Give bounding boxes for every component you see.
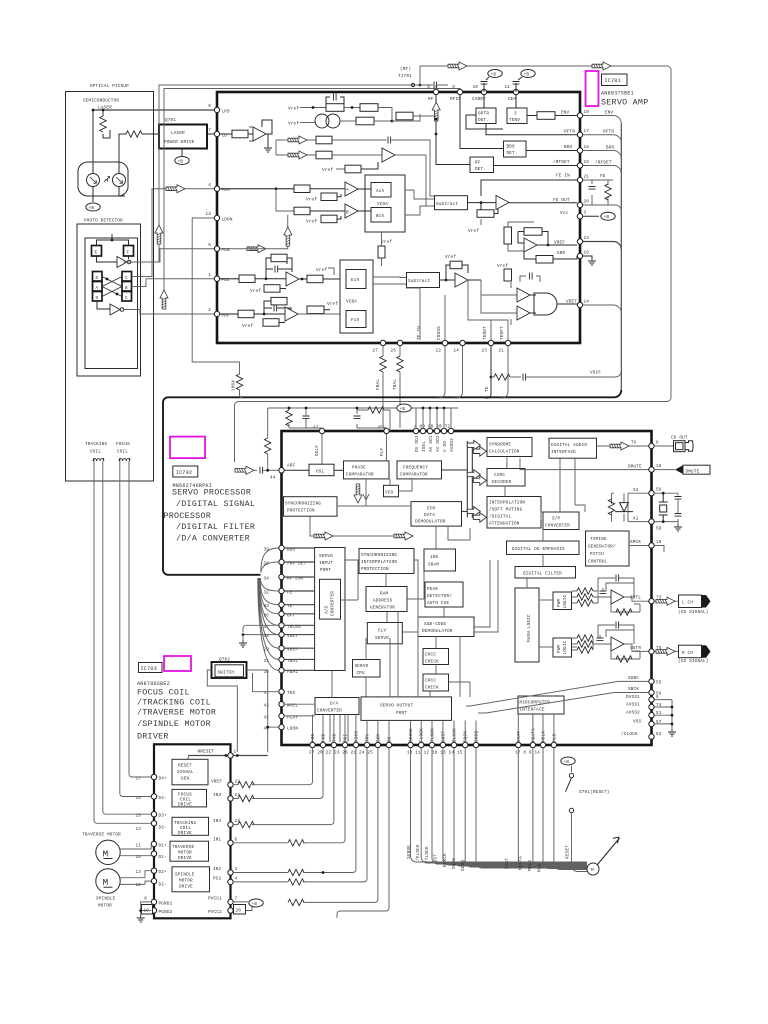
PWM logic block L xyxy=(539,592,572,610)
svg-text:D/A: D/A xyxy=(330,702,339,707)
svg-text:17 8 9 14: 17 8 9 14 xyxy=(515,751,540,756)
wire LD via resistor to laser xyxy=(119,131,158,174)
switch Q702 xyxy=(212,658,247,679)
svg-text:18: 18 xyxy=(584,145,590,150)
bus drop SUBQ xyxy=(461,748,587,871)
+B at CEA xyxy=(513,70,536,93)
svg-text:IN2: IN2 xyxy=(213,867,222,872)
pin 40 LDON xyxy=(263,724,298,731)
processor IC U702 package outline xyxy=(282,431,652,745)
svg-text:26: 26 xyxy=(390,349,396,354)
svg-text:TEOUT: TEOUT xyxy=(483,326,488,340)
Vref stubs near comparator xyxy=(497,264,540,282)
interpolation soft muting block xyxy=(462,486,542,528)
svg-text:D2+: D2+ xyxy=(159,870,168,875)
svg-text:BDO: BDO xyxy=(507,145,516,150)
FE amp xyxy=(468,180,580,234)
svg-text:PHASE: PHASE xyxy=(352,466,366,471)
svg-text:FCD: FCD xyxy=(322,733,327,742)
hatched arrow into ARF xyxy=(235,466,279,474)
EFM data demodulator block xyxy=(411,502,462,526)
coil wire to D4- xyxy=(120,461,152,797)
svg-text:M: M xyxy=(103,849,109,860)
pin 73 OUTL xyxy=(630,596,662,604)
Vref ladder row 1 xyxy=(288,94,392,122)
bias resistor to ARF xyxy=(265,408,271,472)
svg-text:D2-: D2- xyxy=(159,883,167,888)
svg-text:17: 17 xyxy=(584,129,590,134)
svg-text:DRIVER: DRIVER xyxy=(137,732,169,742)
svg-text:TIMING: TIMING xyxy=(590,537,607,542)
pin 39 BDO xyxy=(263,545,295,552)
Q701 +B supply xyxy=(175,149,189,165)
connector M xyxy=(587,863,599,875)
svg-text:11: 11 xyxy=(504,85,510,90)
+B at Vcc xyxy=(583,212,616,220)
svg-text:SERVO PROCESSOR: SERVO PROCESSOR xyxy=(172,488,251,498)
svg-text:CONVERTER: CONVERTER xyxy=(331,591,336,616)
svg-text:DMUTE: DMUTE xyxy=(628,464,642,469)
svg-text:TE IN: TE IN xyxy=(417,326,422,340)
pin 74 AVSS1 xyxy=(626,703,662,710)
pin 8 TX xyxy=(649,441,659,449)
svg-text:24: 24 xyxy=(584,236,590,241)
svg-text:IC702: IC702 xyxy=(176,470,193,476)
svg-text:16K: 16K xyxy=(430,555,439,560)
pin 37 TRCRS xyxy=(263,623,301,630)
pin 6 LPD xyxy=(208,104,230,115)
pin 17 OPTR xyxy=(564,129,589,137)
DAC R output filter xyxy=(611,651,640,662)
shielded riser to RFIN pin xyxy=(160,89,460,310)
svg-text:SUB-CODE: SUB-CODE xyxy=(424,622,446,627)
A/D converter block xyxy=(320,560,359,619)
pin 57 VSS xyxy=(633,719,662,726)
svg-text:ENV: ENV xyxy=(605,111,614,116)
svg-text:D4-: D4- xyxy=(159,796,167,801)
svg-text:PORT: PORT xyxy=(396,711,407,716)
svg-text:C: C xyxy=(125,296,128,301)
svg-text:Ech: Ech xyxy=(351,278,360,283)
svg-text:AN8780SBE2: AN8780SBE2 xyxy=(137,681,170,687)
svg-text:TBAL: TBAL xyxy=(393,379,398,390)
svg-text:PGND1: PGND1 xyxy=(159,901,173,906)
svg-text:D3+: D3+ xyxy=(159,814,168,819)
svg-text:13: 13 xyxy=(135,870,141,875)
svg-text:SYNCHRONIZING: SYNCHRONIZING xyxy=(361,553,397,558)
svg-text:COMPARATOR: COMPARATOR xyxy=(400,473,428,478)
Vref feed between VCO blocks xyxy=(378,232,392,266)
svg-text:58: 58 xyxy=(656,527,662,532)
svg-text:/TLOCK: /TLOCK xyxy=(425,846,430,863)
svg-text:30: 30 xyxy=(263,670,269,675)
CD OUT connector xyxy=(654,436,693,452)
svg-text:OUTR: OUTR xyxy=(630,646,641,651)
svg-text:Vref: Vref xyxy=(250,289,261,294)
svg-text:PVCC1: PVCC1 xyxy=(208,897,222,902)
IC701 part number xyxy=(601,91,634,97)
X2 X1 wires xyxy=(628,488,649,546)
svg-text:X1: X1 xyxy=(633,516,639,521)
optical pickup enclosure xyxy=(66,84,154,481)
svg-text:2: 2 xyxy=(208,308,211,313)
svg-text:VCO: VCO xyxy=(385,491,394,496)
svg-text:PC2: PC2 xyxy=(213,877,222,882)
svg-text:SERVO OUTPUT: SERVO OUTPUT xyxy=(380,704,414,709)
pin 9 RFIN xyxy=(450,85,463,102)
svg-text:OPTR: OPTR xyxy=(478,112,489,117)
svg-text:IN3: IN3 xyxy=(213,793,222,798)
laser diode ground xyxy=(113,187,125,197)
bottom pins IC701 xyxy=(372,340,385,353)
Vcc label xyxy=(560,211,569,216)
OUTL line arrow xyxy=(654,595,710,615)
IC702 bottom pins group B xyxy=(407,742,479,755)
DMUTE wire xyxy=(520,458,649,469)
svg-text:DV DD1: DV DD1 xyxy=(415,435,420,452)
sub-code demodulator block xyxy=(418,560,498,637)
svg-text:SENSE: SENSE xyxy=(407,845,412,859)
svg-text:4: 4 xyxy=(208,183,211,188)
svg-text:8: 8 xyxy=(656,441,659,446)
svg-text:PWM: PWM xyxy=(557,644,562,653)
svg-text:Vref: Vref xyxy=(242,324,253,329)
IC703 designator box xyxy=(139,663,163,673)
bus fan-out arcs to processor left pins xyxy=(258,548,279,670)
SMCK stub xyxy=(654,546,664,553)
svg-text:DRIVE: DRIVE xyxy=(178,831,192,836)
coil wire to D3- xyxy=(94,461,152,823)
svg-text:BDO: BDO xyxy=(564,145,573,150)
svg-text:FOD: FOD xyxy=(311,733,316,742)
synchronizing interpolation protection block xyxy=(359,549,414,574)
svg-text:SMCK: SMCK xyxy=(630,540,641,545)
svg-text:62: 62 xyxy=(656,732,662,737)
svg-text:14: 14 xyxy=(584,300,590,305)
svg-text:AVSS2: AVSS2 xyxy=(626,711,640,716)
VREF follower cluster xyxy=(504,222,577,263)
svg-text:16: 16 xyxy=(584,251,590,256)
pin 41 TES xyxy=(263,689,295,696)
RAM address generator block xyxy=(366,571,424,612)
FBAL resistor drop xyxy=(376,346,387,431)
pin 19 ENV xyxy=(561,110,589,118)
svg-text:7: 7 xyxy=(235,897,238,902)
svg-text:LOGIC: LOGIC xyxy=(563,594,568,608)
photodiode F xyxy=(124,246,134,257)
photodiode E xyxy=(92,246,102,257)
svg-text:FOCUS COIL: FOCUS COIL xyxy=(137,688,190,698)
test jack TJ701 xyxy=(398,67,421,87)
svg-text:43: 43 xyxy=(263,704,269,709)
svg-text:PROTECTION: PROTECTION xyxy=(287,509,315,514)
svg-text:E: E xyxy=(95,251,98,256)
IC702 bottom pins group C xyxy=(515,742,557,755)
S/P converter block xyxy=(541,458,585,529)
svg-text:STAT: STAT xyxy=(517,731,522,742)
pin 35 VDET xyxy=(263,632,298,639)
pin 31 TBAL xyxy=(263,657,298,664)
OSLF label xyxy=(315,445,320,456)
svg-text:DRIVE: DRIVE xyxy=(179,884,193,889)
pin 34 RF ENV xyxy=(263,574,303,581)
signal bus trunk xyxy=(163,390,621,575)
svg-text:MOTOR: MOTOR xyxy=(178,851,192,856)
svg-text:(RF): (RF) xyxy=(400,67,411,72)
svg-text:CONTROL: CONTROL xyxy=(588,560,608,565)
svg-text:9: 9 xyxy=(452,85,455,90)
svg-text:33: 33 xyxy=(263,604,269,609)
VSS ground bus xyxy=(654,700,676,736)
svg-text:Vref: Vref xyxy=(306,198,317,203)
svg-text:21: 21 xyxy=(584,175,590,180)
svg-text:20: 20 xyxy=(584,200,590,205)
svg-text:CHECK: CHECK xyxy=(425,660,439,665)
svg-text:D3-: D3- xyxy=(159,826,167,831)
pin 3 Vcc xyxy=(577,211,586,219)
svg-text:PEAK: PEAK xyxy=(427,587,438,592)
svg-text:FE IN: FE IN xyxy=(556,174,570,179)
wire pin24 aux xyxy=(288,748,378,906)
svg-text:MASH LOGIC: MASH LOGIC xyxy=(527,614,532,642)
svg-text:17: 17 xyxy=(135,777,141,782)
svg-text:TVD: TVD xyxy=(332,733,337,742)
row PDB-branch summing amps xyxy=(220,189,371,249)
svg-text:SUBQ: SUBQ xyxy=(475,731,480,742)
syndrome calculation block xyxy=(467,438,532,457)
IC703 part number xyxy=(137,681,170,687)
svg-text:27: 27 xyxy=(372,349,378,354)
svg-text:TES: TES xyxy=(287,691,296,696)
E/F common node wire xyxy=(97,234,129,246)
pin 2 PDF xyxy=(208,308,230,319)
svg-text:/DIGITAL SIGNAL: /DIGITAL SIGNAL xyxy=(176,499,255,509)
row mid hatched arrows xyxy=(276,136,435,196)
svg-text:FOCUS: FOCUS xyxy=(116,442,130,447)
svg-text:PITCH: PITCH xyxy=(590,552,604,557)
semiconductor laser diode assembly xyxy=(78,162,128,196)
pin 47 xyxy=(313,426,325,434)
motor M1 traverse xyxy=(96,840,151,864)
focus coil drive block xyxy=(172,789,207,807)
motor M2 spindle xyxy=(96,869,151,893)
row PDE inverting amp xyxy=(220,254,340,294)
svg-text:IN1: IN1 xyxy=(213,837,222,842)
VCOA block xyxy=(365,175,405,232)
svg-text:100k: 100k xyxy=(232,380,237,391)
svg-text:Vref: Vref xyxy=(381,240,392,245)
pin 59 X2 xyxy=(649,488,662,496)
V92F RC feedback xyxy=(491,371,621,381)
quad cross wiring xyxy=(102,277,122,297)
svg-text:SWITCH: SWITCH xyxy=(218,671,235,676)
pin 36 OFT xyxy=(263,611,295,618)
MASH logic block xyxy=(515,578,539,662)
pin 19 SMCK xyxy=(649,540,662,548)
FE OUT label xyxy=(553,198,570,203)
pin 32 FE xyxy=(263,588,292,595)
svg-text:RESET: RESET xyxy=(566,845,571,859)
svg-text:GENERATOR: GENERATOR xyxy=(370,606,395,611)
svg-text:PWM: PWM xyxy=(557,598,562,607)
svg-text:5: 5 xyxy=(208,243,211,248)
svg-text:CONVERTER: CONVERTER xyxy=(317,709,342,714)
svg-text:PVCC2: PVCC2 xyxy=(208,910,222,915)
highlight magenta IC702 xyxy=(170,437,205,459)
pin 75 OUTR xyxy=(630,646,662,654)
svg-text:DET.: DET. xyxy=(507,151,518,156)
mid op-amp xyxy=(322,148,435,206)
svg-text:BLKCK: BLKCK xyxy=(453,728,458,742)
wire pin27 to VREF22 xyxy=(233,748,312,788)
svg-text:OPTICAL PICKUP: OPTICAL PICKUP xyxy=(90,84,129,89)
svg-text:Vref: Vref xyxy=(445,255,456,260)
svg-text:Vref: Vref xyxy=(322,168,333,173)
capacitor on RF tap xyxy=(420,82,448,91)
svg-text:19: 19 xyxy=(656,540,662,545)
RF detector xyxy=(470,157,577,173)
svg-text:A: A xyxy=(96,286,99,291)
svg-text:/SOFT MUTING: /SOFT MUTING xyxy=(489,508,523,513)
pin 5 PDB xyxy=(208,243,230,253)
CIRC decoder block xyxy=(467,457,525,487)
svg-text:ATTENUATION: ATTENUATION xyxy=(489,522,520,527)
decoupling R C at pin 45 xyxy=(354,407,391,431)
+B power rail to pins xyxy=(268,404,458,428)
rotated pin names group A xyxy=(311,731,393,742)
photodiode quad D A D xyxy=(93,272,103,302)
svg-text:TEOFT: TEOFT xyxy=(500,326,505,340)
FE net join xyxy=(613,205,621,211)
svg-text:(CD SIGNAL): (CD SIGNAL) xyxy=(678,610,709,615)
CRCC check block 1 xyxy=(423,636,449,665)
svg-text:21: 21 xyxy=(498,349,504,354)
pin 29 VREF xyxy=(263,646,298,653)
svg-text:VSS: VSS xyxy=(633,719,642,724)
svg-text:MDATA: MDATA xyxy=(531,728,536,742)
FE IN external RC xyxy=(583,174,613,205)
svg-text:16: 16 xyxy=(656,464,662,469)
RF pin internal network xyxy=(396,95,470,165)
pin 16 DMUTE xyxy=(649,464,662,472)
svg-text:38: 38 xyxy=(263,562,269,567)
svg-text:POWER DRIVE: POWER DRIVE xyxy=(164,140,195,145)
comparator outputs to pins xyxy=(406,280,508,340)
pin 20 FE OUT xyxy=(577,200,589,208)
svg-text:OUTL: OUTL xyxy=(630,596,641,601)
svg-text:D: D xyxy=(96,276,99,281)
pin 24 VREF xyxy=(577,236,589,244)
driver IC U703 package outline xyxy=(154,744,231,918)
svg-text:MOTOR: MOTOR xyxy=(98,904,112,909)
frequency comparator block xyxy=(397,461,442,479)
svg-text:DIGITAL AUDIO: DIGITAL AUDIO xyxy=(551,443,587,448)
svg-text:SRAM: SRAM xyxy=(428,563,439,568)
coil wire to D4+ xyxy=(129,461,152,777)
svg-text:COMPARATOR: COMPARATOR xyxy=(346,473,374,478)
svg-text:42: 42 xyxy=(263,715,269,720)
svg-text:CLV: CLV xyxy=(378,629,387,634)
svg-text:/DIGITAL FILTER: /DIGITAL FILTER xyxy=(176,522,255,532)
svg-text:F: F xyxy=(127,251,130,256)
svg-text:Vcc: Vcc xyxy=(560,211,569,216)
servo output port block xyxy=(361,697,452,721)
svg-text:Bch: Bch xyxy=(376,214,385,219)
svg-text:CRCC: CRCC xyxy=(425,679,436,684)
svg-text:15: 15 xyxy=(584,160,590,165)
svg-text:MCLK: MCLK xyxy=(542,731,547,742)
RFIN internal wire xyxy=(460,95,504,149)
GND external ground xyxy=(583,256,596,265)
svg-text:GENERATOR/: GENERATOR/ xyxy=(588,545,616,550)
svg-text:12: 12 xyxy=(135,883,141,888)
svg-text:11: 11 xyxy=(135,843,141,848)
svg-text:SCM: SCM xyxy=(376,733,381,742)
16K SRAM block xyxy=(424,526,470,571)
down arrow from phase comparator xyxy=(354,479,369,503)
svg-text:CHECK: CHECK xyxy=(425,686,439,691)
svg-text:7: 7 xyxy=(208,128,211,133)
svg-text:RESET: RESET xyxy=(178,764,192,769)
svg-text:NRESET: NRESET xyxy=(198,750,215,755)
svg-text:Q701: Q701 xyxy=(165,118,176,123)
bus drop /TLOCK xyxy=(425,748,587,864)
svg-text:C: C xyxy=(125,276,128,281)
switch wiring to reset net xyxy=(207,670,278,752)
bottom rotated net labels xyxy=(417,326,505,340)
pin 10 CABRT xyxy=(472,85,487,102)
svg-text:VDET: VDET xyxy=(566,300,577,305)
svg-text:SERVO AMP: SERVO AMP xyxy=(601,98,648,108)
svg-text:14: 14 xyxy=(135,827,141,832)
svg-text:CEA: CEA xyxy=(508,97,517,102)
svg-text:Vref: Vref xyxy=(327,302,338,307)
svg-text:SERVO: SERVO xyxy=(355,664,369,669)
RF loop wire around servo amp xyxy=(235,62,672,462)
pin 38 /RF DET xyxy=(263,559,306,566)
svg-text:LDON: LDON xyxy=(287,727,298,732)
svg-text:59: 59 xyxy=(656,488,662,493)
wire pin23 to IN1 xyxy=(233,748,345,846)
IC702 bottom pins group A xyxy=(309,742,392,755)
reset signal gen block xyxy=(172,759,208,785)
VCBA block xyxy=(340,260,373,333)
svg-text:D1+: D1+ xyxy=(159,843,168,848)
power pin rotated labels xyxy=(415,435,455,452)
photo detector enclosure xyxy=(77,219,141,377)
synchronizing protection block xyxy=(284,497,338,517)
svg-text:COIL: COIL xyxy=(90,450,101,455)
svg-text:/D/A CONVERTER: /D/A CONVERTER xyxy=(176,533,250,543)
VDET net join xyxy=(583,305,622,313)
svg-text:SYNCHRONIZING: SYNCHRONIZING xyxy=(285,502,321,507)
pin 1 PDE xyxy=(208,273,230,283)
svg-text:TX: TX xyxy=(631,441,637,446)
svg-text:SPINDLE: SPINDLE xyxy=(175,872,195,877)
tracking coil label xyxy=(85,442,107,455)
svg-text:16: 16 xyxy=(135,796,141,801)
pin 15 /RFDET xyxy=(553,160,589,168)
svg-text:DET.: DET. xyxy=(478,118,489,123)
svg-text:TRAVERSE MOTOR: TRAVERSE MOTOR xyxy=(82,833,121,838)
svg-text:D: D xyxy=(96,296,99,301)
svg-text:INTERFACE: INTERFACE xyxy=(551,450,576,455)
svg-text:OFTR: OFTR xyxy=(564,130,575,135)
svg-text:/RFDET: /RFDET xyxy=(553,160,570,165)
svg-text:SQCK: SQCK xyxy=(464,731,469,742)
svg-text:3SEL: 3SEL xyxy=(422,441,427,452)
svg-text:VREF: VREF xyxy=(554,241,565,246)
